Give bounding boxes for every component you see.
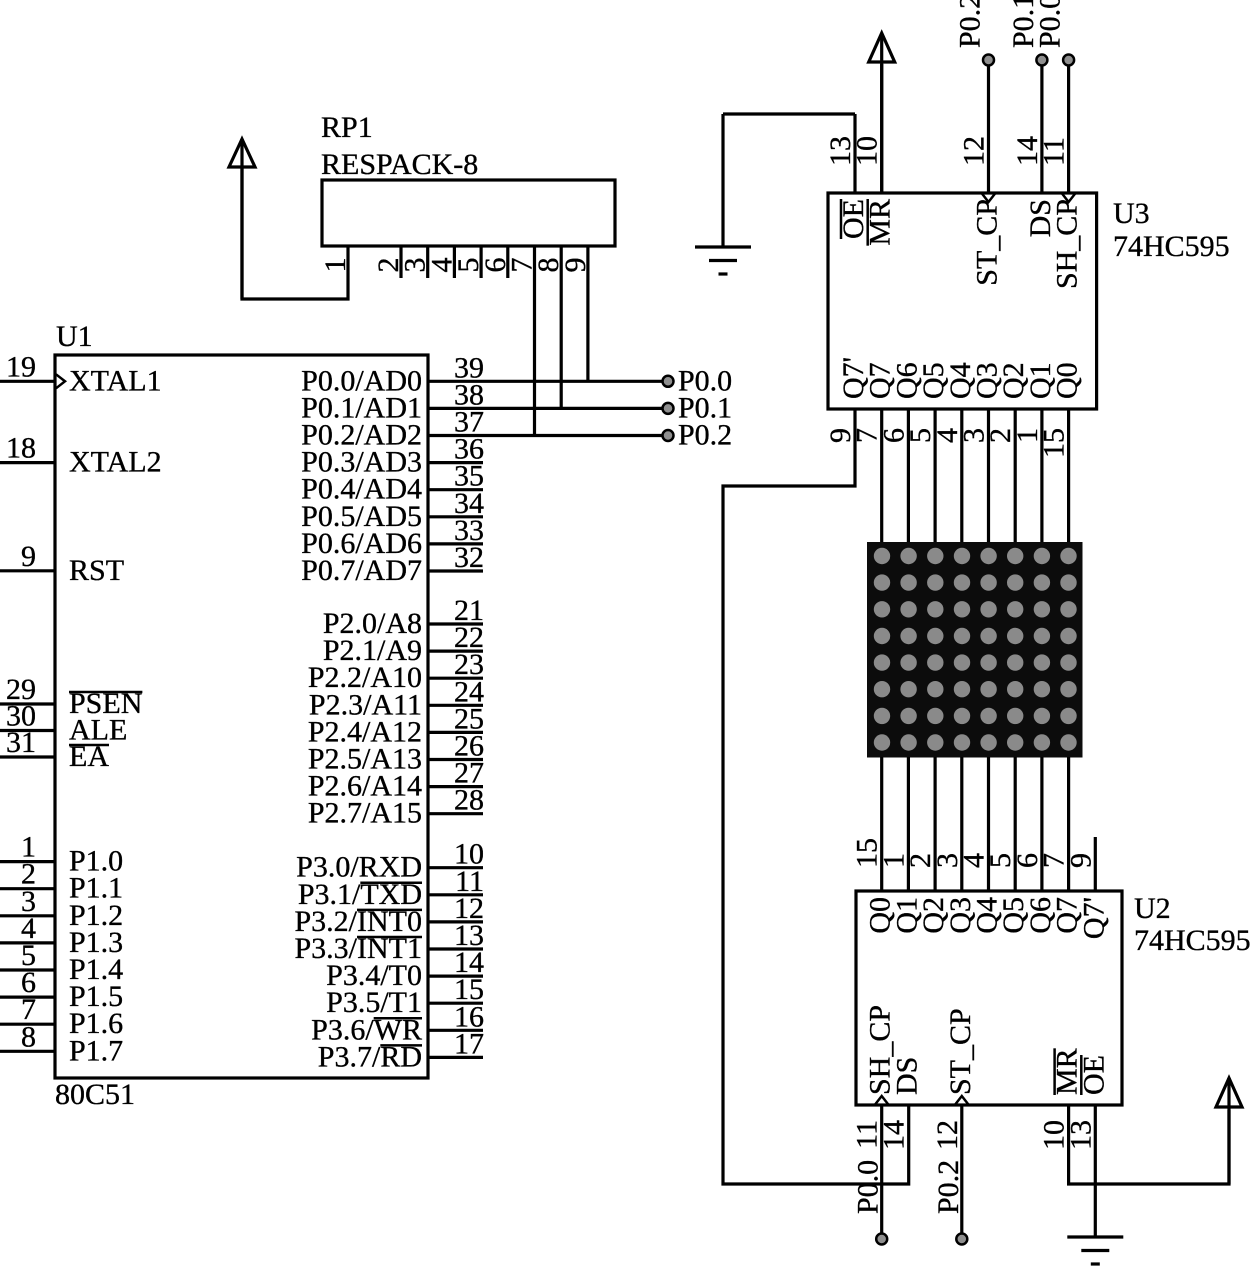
svg-text:XTAL2: XTAL2 [69,446,162,479]
power symbol VCC (RP1) [240,139,243,299]
svg-text:14: 14 [877,1120,910,1150]
U2 pin 10 MR wire to power [1069,1105,1229,1184]
U1 pin 32 P0.7/AD7 [428,569,483,572]
U1 pin 15 P3.5/T1 [428,1002,483,1005]
U1 pin 19 XTAL1 [0,380,55,383]
svg-text:XTAL1: XTAL1 [69,364,162,397]
svg-text:RP1: RP1 [321,111,373,144]
svg-text:12: 12 [931,1120,964,1150]
U3 pin 3 Q3 wire to matrix [987,409,990,542]
U1 pin 8 P1.7 [0,1050,55,1053]
RP1 pin 4 stub [453,246,456,278]
U1 pin 9 RST [0,569,55,572]
svg-text:9: 9 [21,540,36,573]
RP1 pin 9 wire to P0.0 [586,246,589,381]
RP1 pin 5 stub [480,246,483,278]
U3 pin 4 Q4 wire to matrix [960,409,963,542]
U1 pin 25 P2.4/A12 [428,731,483,734]
U3 pin 15 Q0 wire to matrix [1067,409,1070,542]
terminal node P0.1 [663,403,674,414]
U2 pin 9 Q7' stub [1094,837,1097,891]
svg-text:P2.7/A15: P2.7/A15 [308,797,422,830]
U1 pin 23 P2.2/A10 [428,677,483,680]
RP1 pin 7 wire to P0.2 [533,246,536,436]
terminal node P0.0 (bottom) [876,1234,887,1245]
power symbol VCC (U2 MR) [1227,1078,1230,1184]
U1 pin 6 P1.5 [0,995,55,998]
U1 pin 10 P3.0/RXD [428,866,483,869]
terminal node P0.2 (top) [983,55,994,66]
U3 pin 1 Q1 wire to matrix [1040,409,1043,542]
U1 pin 18 XTAL2 [0,461,55,464]
U1 pin 29 PSEN [0,702,55,705]
U1 pin 14 P3.4/T0 [428,974,483,977]
svg-text:9: 9 [559,258,592,273]
U1 pin 37 P0.2/AD2 [428,434,662,437]
svg-text:P0.7/AD7: P0.7/AD7 [301,554,422,587]
U1 pin 22 P2.1/A9 [428,649,483,652]
U3 pin 7 Q7 wire to matrix [880,409,883,542]
RP1 pin 2 stub [399,246,402,278]
svg-text:32: 32 [454,541,484,574]
svg-text:18: 18 [6,432,36,465]
svg-text:28: 28 [454,784,484,817]
svg-text:13: 13 [1064,1120,1097,1150]
U1 pin 11 P3.1/TXD [428,893,483,896]
U2 pin 3 Q3 wire from matrix [960,757,963,891]
svg-text:17: 17 [454,1027,484,1060]
terminal node P0.2 (bottom) [956,1234,967,1245]
svg-text:Q7': Q7' [1077,897,1110,939]
ground symbol (U3 OE) [695,245,751,248]
svg-text:U1: U1 [56,320,93,353]
U2 pin 5 Q5 wire from matrix [1014,757,1017,891]
U1 pin 4 P1.3 [0,941,55,944]
U1 pin 3 P1.2 [0,914,55,917]
svg-text:P1.7: P1.7 [69,1034,123,1067]
svg-text:RST: RST [69,554,124,587]
U1 pin 5 P1.4 [0,968,55,971]
svg-text:U3: U3 [1113,197,1150,230]
IC U2 74HC595 body [856,891,1122,1105]
U3 pin 9 Q7' wire to U2 DS [723,409,909,1184]
svg-text:P0.0: P0.0 [1034,0,1067,48]
terminal node P0.2 [663,430,674,441]
U1 pin 7 P1.6 [0,1023,55,1026]
resistor pack RP1 body [322,180,615,246]
svg-text:P0.2: P0.2 [678,419,732,452]
RP1 pin 3 stub [426,246,429,278]
svg-text:P0.2: P0.2 [932,1160,965,1214]
terminal node P0.0 [663,376,674,387]
svg-text:74HC595: 74HC595 [1113,230,1230,263]
LED dot-matrix display body [867,542,1083,758]
U1 pin 13 P3.3/INT1 [428,947,483,950]
U1 pin 33 P0.6/AD6 [428,542,483,545]
svg-text:P0.2: P0.2 [954,0,987,48]
svg-text:8: 8 [21,1020,36,1053]
svg-text:ST_CP: ST_CP [944,1008,977,1095]
U2 pin 4 Q4 wire from matrix [987,757,990,891]
U1 pin 31 EA [0,755,55,758]
terminal node P0.1 (top) [1036,55,1047,66]
U1 pin 16 P3.6/WR [428,1029,483,1032]
U1 pin 2 P1.1 [0,887,55,890]
power symbol VCC (U3 MR) [880,33,883,193]
U1 pin 30 ALE [0,729,55,732]
terminal node P0.0 (top) [1063,55,1074,66]
U3 pin 2 Q2 wire to matrix [1014,409,1017,542]
U1 pin 35 P0.4/AD4 [428,488,483,491]
U1 pin 39 P0.0/AD0 [428,380,662,383]
U2 pin 13 OE wire to ground [1094,1105,1097,1237]
U2 pin 12 ST_CP wire [960,1105,963,1233]
U3 pin 13 OE wire to ground [853,114,856,193]
svg-text:10: 10 [851,136,884,166]
U2 pin 11 SH_CP wire [880,1105,883,1233]
IC U1 80C51 body [55,355,428,1078]
svg-text:11: 11 [1038,137,1071,166]
U3 pin 11 SH_CP wire [1067,60,1070,193]
U1 pin 17 P3.7/RD [428,1056,483,1059]
U1 pin 21 P2.0/A8 [428,622,483,625]
U2 pin 6 Q6 wire from matrix [1040,757,1043,891]
U2 pin 2 Q2 wire from matrix [933,757,936,891]
U2 pin 1 Q1 wire from matrix [907,757,910,891]
RP1 pin 8 wire to P0.1 [560,246,563,408]
svg-text:P0.0: P0.0 [852,1160,885,1214]
svg-text:74HC595: 74HC595 [1134,924,1250,957]
U1 pin 27 P2.6/A14 [428,785,483,788]
RP1 pin 1 wire to power [242,165,348,299]
svg-text:15: 15 [1038,428,1071,458]
svg-text:SH_CP: SH_CP [1051,199,1084,289]
U3 pin 10 MR wire to power [880,64,883,193]
U3 pin 12 ST_CP wire [987,60,990,193]
svg-text:19: 19 [6,350,36,383]
U3 pin 5 Q5 wire to matrix [933,409,936,542]
svg-text:DS: DS [890,1057,923,1095]
svg-text:U2: U2 [1134,892,1171,925]
U1 pin 28 P2.7/A15 [428,812,483,815]
U1 pin 38 P0.1/AD1 [428,407,662,410]
U1 pin 12 P3.2/INT0 [428,920,483,923]
U1 pin 26 P2.5/A13 [428,758,483,761]
svg-text:80C51: 80C51 [55,1078,135,1111]
U1 pin 36 P0.3/AD3 [428,461,483,464]
svg-text:31: 31 [6,726,36,759]
svg-text:12: 12 [958,136,991,166]
svg-text:RESPACK-8: RESPACK-8 [321,148,478,181]
svg-text:9: 9 [1064,853,1097,868]
U1 pin 1 P1.0 [0,860,55,863]
svg-text:1: 1 [319,258,352,273]
IC U3 74HC595 body [828,193,1097,409]
U2 pin 7 Q7 wire from matrix [1067,757,1070,891]
RP1 pin 6 stub [506,246,509,278]
U2 pin 15 Q0 wire from matrix [880,757,883,891]
U1 pin 24 P2.3/A11 [428,704,483,707]
U1 pin 34 P0.5/AD5 [428,515,483,518]
svg-text:Q0: Q0 [1051,362,1084,399]
ground symbol (U2 OE) [1067,1235,1123,1238]
U3 pin 14 DS wire [1040,60,1043,193]
svg-text:ST_CP: ST_CP [971,199,1004,286]
LED matrix dots 8x8 [874,548,890,564]
U3 pin 6 Q6 wire to matrix [907,409,910,542]
